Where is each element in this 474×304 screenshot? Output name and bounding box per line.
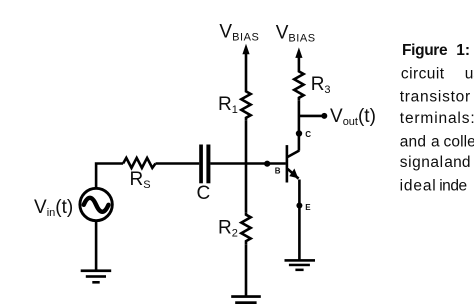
svg-text:terminals:: terminals:	[400, 110, 474, 127]
wire R1 to R2 through node	[245, 120, 248, 212]
node E emitter dot	[296, 203, 302, 209]
ground below R2	[231, 295, 261, 304]
wire emitter down	[298, 180, 301, 261]
svg-text:signal: signal	[400, 154, 444, 171]
svg-text:Figure: Figure	[402, 42, 448, 59]
svg-text:and: and	[444, 154, 470, 171]
svg-text:C: C	[197, 183, 211, 204]
wire R2 to ground	[245, 244, 248, 296]
resistor R1	[241, 89, 250, 120]
svg-text:Vin(t): Vin(t)	[34, 197, 73, 219]
wire Vin top to RS	[96, 164, 123, 189]
svg-text:R1: R1	[218, 94, 238, 116]
wire Vout tap	[299, 115, 324, 118]
ground below emitter	[285, 259, 316, 271]
resistor RS	[123, 158, 155, 168]
svg-text:transistor: transistor	[400, 89, 471, 106]
wire Vin to ground	[95, 221, 98, 270]
svg-text:VBIAS: VBIAS	[276, 22, 316, 44]
wire VBIAS arrow R3 branch	[295, 47, 302, 69]
wire VBIAS arrow R1 branch	[242, 44, 249, 89]
wire RS to capacitor	[156, 162, 200, 165]
resistor R3	[294, 69, 303, 100]
svg-text:R2: R2	[218, 218, 238, 240]
wire capacitor to base	[210, 162, 285, 165]
svg-text:circuit: circuit	[401, 65, 445, 82]
resistor R2	[241, 212, 250, 244]
voltage source V1 Vin	[80, 188, 112, 220]
capacitor C	[199, 145, 210, 184]
svg-text:inde: inde	[439, 177, 467, 194]
node C collector dot	[296, 130, 302, 136]
ground below Vin	[81, 269, 112, 283]
svg-text:1:: 1:	[456, 42, 470, 59]
wire R3 to collector	[298, 100, 301, 150]
svg-text:usi: usi	[465, 65, 474, 82]
svg-text:R3: R3	[311, 74, 331, 96]
svg-text:RS: RS	[130, 169, 151, 191]
svg-text:and: and	[400, 133, 426, 150]
svg-text:ideal: ideal	[400, 177, 437, 194]
node Vout dot	[321, 113, 327, 119]
svg-text:B: B	[275, 167, 281, 176]
svg-text:VBIAS: VBIAS	[219, 21, 259, 43]
svg-text:Vout(t): Vout(t)	[330, 106, 376, 128]
svg-text:a: a	[431, 133, 440, 150]
node B junction dot	[264, 161, 270, 167]
caption	[400, 42, 474, 195]
transistor Q1	[286, 145, 300, 182]
svg-text:collect: collect	[444, 133, 474, 150]
svg-text:E: E	[305, 203, 311, 212]
svg-text:C: C	[305, 130, 311, 139]
